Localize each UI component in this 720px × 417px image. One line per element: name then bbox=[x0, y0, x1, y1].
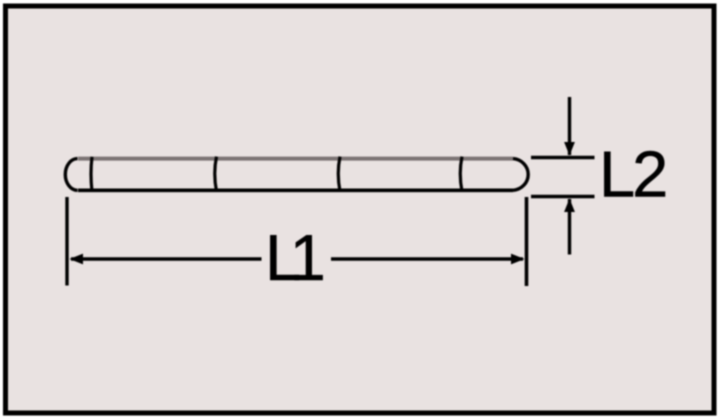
tube divider 2 bbox=[338, 157, 340, 192]
svg-text:L1: L1 bbox=[265, 221, 323, 294]
tube body bottom line bbox=[78, 189, 513, 193]
L1 right extension line bbox=[525, 197, 529, 286]
tube body top line bbox=[78, 157, 513, 161]
L2 bottom tick line bbox=[531, 195, 595, 198]
L1 left arrowhead bbox=[70, 254, 84, 265]
L2 top tick line bbox=[531, 156, 595, 159]
tube left seam line bbox=[91, 157, 92, 192]
tube divider 3 bbox=[460, 157, 462, 192]
tube divider 1 bbox=[215, 157, 217, 192]
L1 left extension line bbox=[65, 197, 68, 286]
L2 top arrowhead bbox=[564, 142, 575, 156]
L1 dimension line right segment bbox=[331, 257, 523, 260]
L1 dimension line left segment bbox=[71, 257, 262, 260]
tube left dome tip bbox=[65, 159, 77, 191]
L1 right arrowhead bbox=[511, 254, 525, 265]
svg-text:L2: L2 bbox=[599, 138, 665, 211]
L2 bottom arrow shaft bbox=[568, 199, 571, 255]
tube right rounded cap bbox=[513, 159, 528, 191]
L2 bottom arrowhead bbox=[564, 199, 575, 213]
L2 top arrow shaft bbox=[568, 97, 571, 155]
